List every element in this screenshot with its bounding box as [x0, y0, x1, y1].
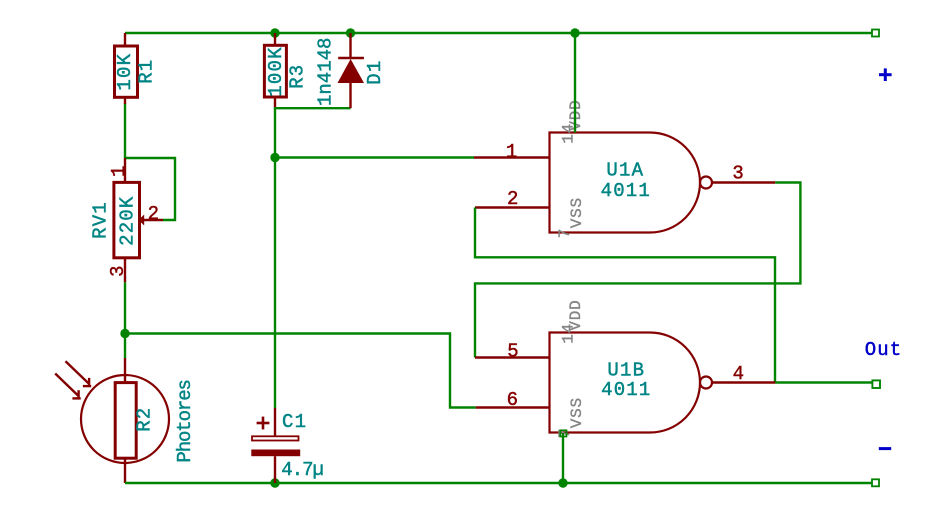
svg-text:1: 1	[108, 166, 130, 177]
svg-text:R3: R3	[287, 64, 309, 89]
terminal square top right	[872, 30, 879, 37]
wire U1A pin3 to U1B pin5	[475, 183, 800, 358]
svg-text:C1: C1	[282, 411, 307, 433]
svg-text:100K: 100K	[265, 46, 287, 96]
svg-text:2: 2	[507, 188, 518, 210]
svg-text:R1: R1	[136, 59, 158, 84]
svg-text:D1: D1	[364, 59, 386, 84]
wire U1B out to U1A pin2	[475, 208, 775, 383]
node VSS wire-end square	[560, 430, 566, 436]
svg-text:VSS: VSS	[568, 397, 586, 428]
resistor R1	[114, 33, 158, 104]
node junction R3 top	[270, 28, 279, 37]
wire R1 to RV1	[124, 104, 126, 158]
wire U1A VDD to rail	[574, 33, 576, 133]
svg-text:220K: 220K	[116, 195, 138, 245]
svg-text:10K: 10K	[114, 53, 136, 91]
wire C1 column	[274, 108, 276, 408]
resistor R3	[264, 33, 308, 107]
svg-text:14: 14	[560, 323, 578, 344]
nand gate U1B	[475, 299, 775, 438]
potentiometer RV1	[90, 158, 163, 282]
net label minus	[879, 447, 891, 450]
svg-text:4011: 4011	[601, 379, 651, 401]
svg-text:Out: Out	[865, 339, 903, 361]
svg-text:1n4148: 1n4148	[314, 38, 336, 106]
node junction divider	[120, 329, 129, 338]
capacitor C1	[251, 408, 323, 483]
wire divider node to U1B pin6	[125, 334, 476, 408]
nand gate U1A	[474, 99, 775, 238]
svg-text:3: 3	[107, 265, 129, 276]
wire bottom rail	[125, 482, 872, 484]
svg-text:6: 6	[507, 389, 518, 411]
wire divider node to R2	[124, 334, 126, 359]
wire RV1 wiper loop	[125, 158, 175, 220]
node junction pin1 branch	[270, 153, 279, 162]
svg-text:U1A: U1A	[606, 159, 644, 181]
svg-text:RV1: RV1	[90, 201, 112, 239]
svg-text:4: 4	[733, 363, 744, 385]
node junction U1A VDD	[570, 28, 579, 37]
node junction C1 bottom	[270, 478, 279, 487]
wire U1B out to terminal	[775, 381, 872, 383]
node junction U1B VSS bottom	[558, 478, 567, 487]
diode D1	[314, 33, 386, 108]
terminal square Out	[872, 380, 880, 388]
terminal square bottom right	[872, 479, 879, 486]
svg-text:4.7µ: 4.7µ	[281, 459, 323, 481]
svg-text:Photores: Photores	[174, 380, 196, 462]
svg-text:VSS: VSS	[568, 197, 586, 228]
svg-text:3: 3	[732, 163, 743, 185]
wire RV1 to divider node	[124, 282, 126, 333]
wire to U1A pin1	[275, 156, 474, 158]
svg-text:7: 7	[556, 228, 574, 238]
svg-text:1: 1	[506, 141, 517, 163]
svg-text:4011: 4011	[601, 180, 651, 202]
wire R3 to D1 jog	[275, 107, 351, 108]
wire top rail	[125, 32, 872, 34]
svg-text:R2: R2	[134, 407, 156, 432]
svg-text:2: 2	[148, 203, 159, 225]
node junction D1 top	[346, 28, 355, 37]
photoresistor R2	[55, 358, 196, 483]
net label plus	[879, 68, 892, 81]
svg-text:5: 5	[507, 341, 518, 363]
wire U1B VSS to bottom rail	[562, 433, 564, 483]
svg-text:U1B: U1B	[607, 359, 645, 381]
